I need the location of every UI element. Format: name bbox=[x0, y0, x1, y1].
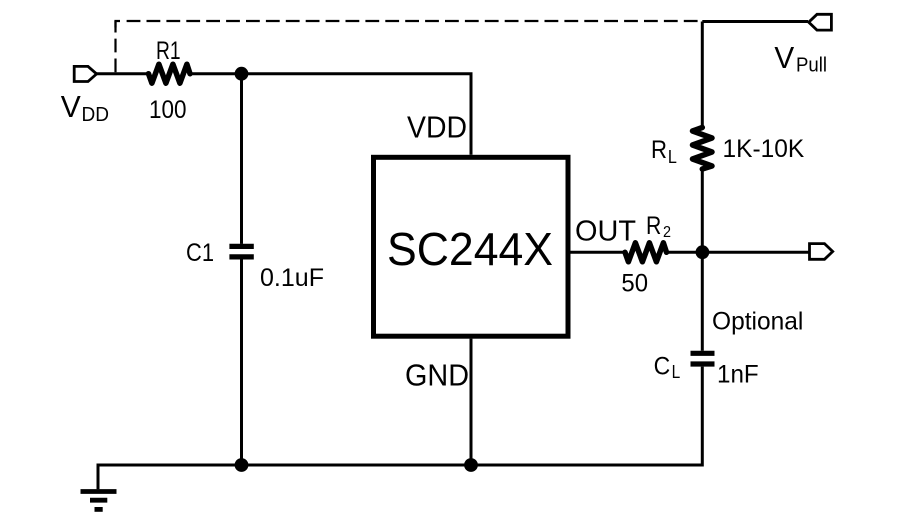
svg-text:0.1uF: 0.1uF bbox=[260, 264, 324, 292]
svg-text:C1: C1 bbox=[186, 239, 214, 267]
svg-text:L: L bbox=[668, 147, 677, 167]
svg-text:V: V bbox=[61, 90, 82, 124]
svg-text:1K-10K: 1K-10K bbox=[723, 135, 805, 163]
svg-text:C: C bbox=[654, 353, 671, 381]
svg-text:V: V bbox=[774, 41, 794, 75]
svg-text:R: R bbox=[651, 136, 667, 164]
svg-text:50: 50 bbox=[621, 270, 648, 298]
svg-text:VDD: VDD bbox=[407, 111, 467, 145]
svg-text:R1: R1 bbox=[156, 37, 181, 65]
svg-text:R: R bbox=[646, 212, 661, 240]
svg-text:DD: DD bbox=[82, 103, 110, 126]
svg-text:100: 100 bbox=[149, 96, 187, 124]
svg-text:Optional: Optional bbox=[712, 308, 803, 336]
svg-text:2: 2 bbox=[663, 224, 671, 241]
svg-text:SC244X: SC244X bbox=[387, 223, 553, 275]
svg-text:GND: GND bbox=[405, 359, 469, 393]
svg-text:Pull: Pull bbox=[796, 54, 827, 77]
svg-text:L: L bbox=[672, 362, 681, 382]
svg-text:1nF: 1nF bbox=[717, 360, 759, 388]
svg-text:OUT: OUT bbox=[575, 216, 636, 248]
